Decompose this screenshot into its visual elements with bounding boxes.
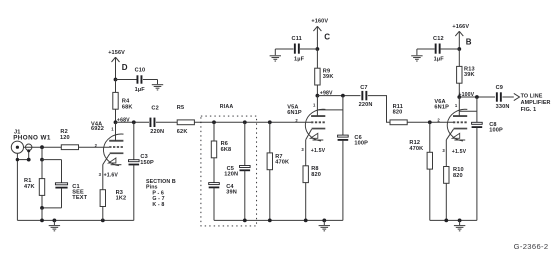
svg-text:39K: 39K [323, 74, 334, 80]
triode V6A cathode bar [454, 128, 468, 130]
wire V6A cathode down [445, 140, 447, 167]
label C6 [354, 135, 361, 141]
wire C8 bottom lead [476, 127, 478, 220]
junction R12 branch [428, 120, 432, 124]
capacitor C2 [150, 118, 156, 127]
label R8 [311, 166, 318, 172]
power arrow +166V [455, 31, 463, 49]
pin 1 of V4A [111, 126, 114, 131]
label +100V [458, 92, 474, 98]
capacitor C11 [294, 44, 300, 54]
wire V5A cathode down [305, 140, 307, 166]
ground (left section) [49, 220, 60, 230]
junction C3 branch [132, 120, 136, 124]
junction rail R8 [304, 219, 308, 223]
junction input node [40, 145, 44, 149]
wire C1 bottom lead [61, 188, 63, 208]
label 62K [177, 129, 188, 135]
label 100P 2 [489, 128, 503, 134]
wire C8 branch down [476, 97, 478, 124]
connector J1 outer circle [11, 141, 23, 153]
note G - 7 [152, 196, 164, 202]
pin 1 of V6A [455, 103, 458, 108]
junction rail C5 [243, 219, 247, 223]
svg-text:6N1P: 6N1P [434, 105, 449, 111]
label 39K [323, 74, 334, 80]
label R10 [453, 167, 464, 173]
capacitor C12 [435, 44, 441, 54]
wire R1 top lead [41, 160, 43, 179]
label 100P [354, 141, 368, 147]
label R2 [60, 129, 67, 135]
wire R1C1 node to C1 branch [42, 159, 62, 161]
wire C to R9 [316, 49, 318, 68]
triode V4A heater triangle [109, 158, 122, 165]
label 820 2 [393, 110, 403, 116]
capacitor C5 [240, 166, 251, 172]
label 6N1P 2 [434, 105, 449, 111]
svg-text:C10: C10 [135, 67, 146, 73]
label C4 [226, 184, 234, 190]
pin 3 of V5A [301, 147, 304, 152]
wire R11 to V6A grid [407, 121, 453, 123]
capacitor C8 [472, 122, 483, 128]
resistor R4 [113, 92, 118, 109]
label 220N [150, 129, 164, 135]
junction node C [316, 47, 320, 51]
wire input node down [41, 147, 43, 159]
wire C9 to output [502, 96, 513, 98]
ground (C10) [152, 80, 163, 90]
label J1 [14, 130, 21, 136]
svg-text:68K: 68K [122, 104, 133, 110]
label 820 [311, 172, 321, 178]
junction node D [114, 78, 118, 82]
wire R1 bottom lead [41, 195, 43, 208]
label R9 [323, 68, 330, 74]
label 39K 2 [464, 72, 475, 78]
svg-text:R5: R5 [177, 105, 184, 111]
wire R3 bottom lead [102, 207, 104, 221]
junction shield-ground corner [16, 158, 19, 161]
wire C7 to R11 [368, 96, 390, 123]
triode V4A plate (anode) bar [109, 140, 123, 142]
svg-text:820: 820 [393, 110, 403, 116]
label C11 [292, 36, 302, 42]
label FIG. 1 [521, 107, 537, 113]
triode V6A envelope [447, 109, 467, 141]
label 120N [224, 171, 238, 177]
ground (C11) [270, 49, 281, 61]
capacitor C6 [338, 135, 349, 141]
svg-text:6N1P: 6N1P [287, 110, 302, 116]
label SEE [72, 190, 84, 196]
label +1.5V [311, 148, 326, 154]
label R5 [177, 105, 184, 111]
resistor R3 [100, 190, 105, 207]
wire shield to ground leg [17, 159, 28, 161]
resistor R9 [315, 68, 320, 85]
label R4 [122, 99, 130, 105]
svg-text:820: 820 [453, 173, 463, 179]
svg-text:PHONO W1: PHONO W1 [13, 135, 51, 142]
node D [122, 63, 128, 72]
triode V5A cathode lead [306, 129, 312, 140]
label TEXT [72, 195, 87, 201]
wire R6 to C4 [213, 158, 215, 184]
triode V4A cathode bar [110, 152, 124, 154]
pin 3 of V4A [99, 172, 102, 177]
capacitor C4 [209, 183, 220, 189]
triode V5A envelope [305, 109, 325, 141]
svg-text:47K: 47K [24, 184, 35, 190]
wire C10 to ground [143, 79, 158, 81]
wire D to C10 [116, 79, 138, 81]
triode V6A heater triangle [452, 133, 465, 140]
label +156V [108, 50, 125, 56]
svg-text:C: C [324, 32, 330, 41]
triode V6A grid (dashed) [453, 121, 467, 123]
label V5A [287, 104, 298, 110]
svg-text:1µF: 1µF [434, 56, 445, 62]
wire B to R13 [458, 49, 460, 66]
wire C4 bottom to rail [213, 188, 215, 221]
label 470K 2 [409, 146, 423, 152]
label TO LINE [521, 94, 543, 100]
resistor R1 [39, 179, 44, 196]
pin 2 of V4A [95, 143, 98, 148]
svg-text:R12: R12 [409, 140, 420, 146]
label +166V [452, 24, 469, 30]
junction R7 top [268, 120, 272, 124]
wire C6 bottom lead [342, 140, 344, 220]
wire R12 bottom lead [429, 169, 431, 220]
wire V4A plate lead [115, 122, 117, 141]
svg-text:39K: 39K [464, 72, 475, 78]
power arrow +160V [313, 26, 321, 49]
label +160V [311, 18, 328, 24]
node B [466, 38, 472, 47]
label V6A [434, 99, 445, 105]
wire plate jog 2 [459, 110, 477, 112]
capacitor C7 [361, 91, 367, 100]
label PHONO W1 [13, 135, 51, 142]
wire C12 to node B [441, 48, 460, 50]
wire R12 top lead [429, 122, 431, 152]
wire C3 bottom to rail [133, 165, 135, 221]
svg-text:C11: C11 [292, 36, 302, 42]
label C12 [433, 36, 444, 42]
pin 2 of V6A [437, 117, 440, 122]
wire +100V to C9 [459, 96, 495, 98]
svg-text:AMPLIFIER: AMPLIFIER [521, 100, 551, 106]
junction shield node [27, 158, 31, 162]
svg-text:6K8: 6K8 [221, 147, 232, 153]
label C8 [489, 122, 496, 128]
svg-text:1K2: 1K2 [116, 196, 127, 202]
svg-text:K - 8: K - 8 [152, 202, 164, 208]
wire V5A plate lead [316, 96, 318, 116]
resistor R2 [61, 145, 78, 150]
svg-text:100P: 100P [354, 141, 368, 147]
wire C6 branch down [342, 96, 344, 137]
ground rail (middle section) [214, 219, 343, 221]
ground (C12) [411, 49, 422, 61]
wire R9 to +98V node [316, 85, 318, 96]
wire plate jog [317, 109, 343, 111]
svg-text:+160V: +160V [311, 18, 328, 24]
label 6922 [91, 126, 104, 132]
label +98V [320, 91, 333, 97]
wire R2 to V4A grid [79, 146, 110, 148]
label 39N [226, 190, 237, 196]
svg-text:+166V: +166V [452, 24, 469, 30]
junction rail ground stub [53, 219, 57, 223]
label V4A [91, 121, 102, 127]
svg-text:RIAA: RIAA [220, 104, 234, 110]
label C2 [151, 106, 158, 112]
wire R7 bottom lead [269, 170, 271, 221]
label 6K8 [221, 147, 232, 153]
label R1 [24, 178, 31, 184]
label C3 [140, 154, 147, 160]
pin 3 of V6A [442, 148, 445, 153]
triode V5A cathode bar [312, 128, 326, 130]
triode V5A plate (anode) bar [311, 115, 325, 117]
wire R4 to anode node [115, 109, 117, 122]
svg-text:220N: 220N [150, 129, 164, 135]
wire C1 branch down [61, 160, 63, 185]
pin 2 of V5A [295, 118, 298, 123]
junction +100V node [457, 95, 461, 99]
svg-text:120N: 120N [224, 171, 238, 177]
wire +98V to C7 [317, 95, 360, 97]
wire R6 top lead [213, 122, 215, 141]
wire R10 bottom lead [445, 183, 447, 220]
label 220N 2 [359, 102, 373, 108]
svg-text:G-2366-2: G-2366-2 [514, 242, 549, 251]
wire C5 top lead [244, 122, 246, 167]
resistor R6 [211, 141, 216, 158]
resistor R5 [177, 120, 194, 125]
junction R1-C1 top node [40, 158, 44, 162]
svg-text:C2: C2 [151, 106, 158, 112]
label 820 3 [453, 173, 463, 179]
label 1uF 3 [434, 56, 445, 62]
junction R6 top [212, 120, 216, 124]
triode V4A grid (dashed) [109, 146, 123, 148]
label R13 [464, 66, 475, 72]
junction rail R3 [101, 219, 105, 223]
junction rail ground right [458, 219, 462, 223]
label 68K [122, 104, 133, 110]
wire C2 to R5 [156, 121, 177, 123]
note K - 8 [152, 202, 164, 208]
label 150P [140, 160, 154, 166]
wire J1 body down [16, 153, 18, 220]
note P - 6 [152, 190, 164, 196]
capacitor C3 [129, 160, 140, 166]
wire R1C1 to rail [41, 208, 43, 221]
label 1uF 2 [294, 56, 305, 62]
label 47K [24, 184, 35, 190]
label R3 [116, 190, 123, 196]
svg-text:C12: C12 [433, 36, 444, 42]
svg-text:330N: 330N [496, 104, 510, 110]
svg-text:6922: 6922 [91, 126, 104, 132]
resistor R11 [390, 120, 407, 125]
triode V5A grid (dashed) [311, 121, 325, 123]
resistor R10 [444, 167, 449, 184]
label C7 [360, 85, 367, 91]
wire D to R4 [115, 80, 117, 93]
svg-text:B: B [466, 38, 472, 47]
triode V4A cathode lead [103, 154, 110, 165]
junction shield pin [27, 149, 30, 152]
label 120 [60, 135, 70, 141]
label R7 [275, 154, 282, 160]
junction rail R10 [444, 219, 448, 223]
wire ground to C12 [417, 48, 435, 50]
svg-text:TO LINE: TO LINE [521, 94, 543, 100]
ground rail (right section) [430, 219, 477, 221]
label +1.5V 2 [452, 149, 467, 155]
node C [324, 32, 330, 41]
ground (middle section) [319, 220, 330, 230]
capacitor C9 [496, 92, 502, 101]
junction R1-C1 bottom [40, 206, 44, 210]
pin 1 of V5A [313, 103, 316, 108]
triode V4A envelope [103, 134, 123, 166]
wire J1 center pin to R2 [24, 146, 62, 148]
wire C3 branch down [133, 122, 135, 161]
wire C1 join R1 [42, 207, 62, 209]
label R12 [409, 140, 420, 146]
resistor R13 [457, 66, 462, 83]
label R6 [221, 141, 228, 147]
svg-text:C7: C7 [360, 85, 367, 91]
wire anode node to C2 [116, 121, 150, 123]
svg-text:1µF: 1µF [135, 87, 146, 93]
capacitor C10 [137, 75, 143, 83]
RIAA dashed box [201, 116, 257, 226]
wire ground to C11 [275, 48, 293, 50]
resistor R12 [427, 152, 432, 169]
wire C11 to node C [300, 48, 317, 50]
svg-text:1µF: 1µF [294, 56, 305, 62]
capacitor C1 [55, 183, 67, 189]
wire R13 to +100V node [458, 83, 460, 97]
label +68V [117, 118, 130, 124]
label C9 [496, 85, 503, 91]
svg-text:C9: C9 [496, 85, 503, 91]
label 1K2 [116, 196, 127, 202]
svg-text:820: 820 [311, 172, 321, 178]
note Pins [146, 185, 158, 191]
svg-text:470K: 470K [409, 146, 423, 152]
wire R7 top lead [269, 122, 271, 153]
svg-text:100P: 100P [489, 128, 503, 134]
svg-text:120: 120 [60, 135, 70, 141]
wire R8 bottom lead [305, 183, 307, 221]
drawing number G-2366-2 [514, 242, 549, 251]
junction C8 branch [475, 95, 479, 99]
wire shield ring down [28, 150, 30, 159]
wire V6A plate lead [458, 97, 460, 116]
output arrow [514, 93, 520, 100]
svg-text:R2: R2 [60, 129, 67, 135]
label 6N1P [287, 110, 302, 116]
triode V6A plate (anode) bar [453, 115, 467, 117]
wire R5 to V5A grid [194, 121, 311, 123]
junction rail R7 [268, 219, 272, 223]
label C10 [135, 67, 146, 73]
label RIAA [220, 104, 234, 110]
svg-text:+156V: +156V [108, 50, 125, 56]
svg-text:220N: 220N [359, 102, 373, 108]
label 330N [496, 104, 510, 110]
ground rail (left section) [17, 219, 133, 221]
ground (right section) [454, 220, 465, 230]
connector J1 shield ring [26, 144, 32, 150]
resistor R8 [303, 166, 308, 183]
note SECTION B [146, 179, 176, 185]
junction C5 top [243, 120, 247, 124]
junction +68V node [114, 120, 118, 124]
label 470K [275, 159, 289, 165]
svg-text:+1.5V: +1.5V [452, 149, 467, 155]
svg-text:39N: 39N [226, 190, 237, 196]
svg-text:150P: 150P [140, 160, 154, 166]
label 1uF [135, 87, 146, 93]
power arrow +156V [112, 57, 120, 79]
svg-text:+1.5V: +1.5V [311, 148, 326, 154]
label AMPLIFIER [521, 100, 551, 106]
svg-text:FIG. 1: FIG. 1 [521, 107, 537, 113]
triode V5A heater triangle [310, 133, 323, 140]
svg-text:62K: 62K [177, 129, 188, 135]
junction +98V node [316, 94, 320, 98]
svg-text:470K: 470K [275, 159, 289, 165]
junction node B [457, 47, 461, 51]
junction C6 branch [341, 94, 345, 98]
label C1 [72, 184, 79, 190]
svg-text:+1.6V: +1.6V [104, 172, 119, 178]
wire V4A cathode down [102, 165, 104, 190]
wire C5 bottom lead [244, 171, 246, 221]
svg-text:D: D [122, 63, 128, 72]
svg-text:TEXT: TEXT [72, 195, 87, 201]
label C5 [227, 166, 234, 172]
resistor R7 [267, 153, 272, 170]
triode V6A cathode lead [446, 129, 453, 140]
label R11 [393, 104, 403, 110]
junction rail ground mid [322, 219, 326, 223]
label +1.6V [104, 172, 119, 178]
junction rail R1 [40, 219, 44, 223]
